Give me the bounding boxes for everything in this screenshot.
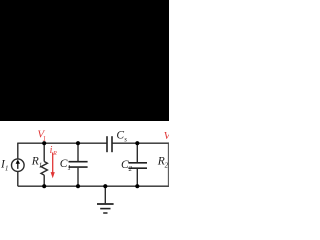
svg-text:1: 1 (39, 162, 42, 169)
svg-text:1: 1 (5, 165, 8, 172)
svg-text:R: R (52, 151, 57, 157)
svg-text:1: 1 (43, 136, 46, 143)
svg-text:s: s (124, 137, 127, 144)
svg-text:2: 2 (165, 162, 169, 169)
svg-text:2: 2 (129, 166, 133, 173)
svg-text:1: 1 (68, 165, 71, 172)
svg-text:R: R (31, 155, 39, 167)
svg-text:C: C (116, 129, 124, 141)
svg-text:V: V (164, 130, 169, 142)
svg-text:i: i (50, 145, 53, 156)
